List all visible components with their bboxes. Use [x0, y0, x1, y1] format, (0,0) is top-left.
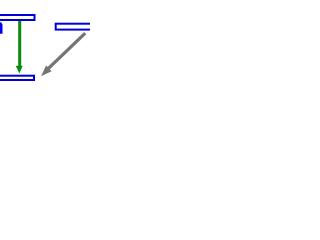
- green transition arrow (vertical, pointing down from upper-left band to lower-left band): [16, 21, 23, 74]
- blue arrow fragment at left edge (clipped shape below upper-left band): [0, 22, 3, 34]
- energy level band lower-left (blue outlined rectangle, clipped at left edge): [0, 76, 34, 80]
- background: [0, 0, 90, 90]
- energy level band upper-right (blue outlined rectangle, clipped at right edge): [56, 24, 96, 30]
- energy level band upper-left (blue outlined rectangle, clipped at left edge): [0, 15, 35, 20]
- gray annotation arrow (diagonal from under upper-right band, pointing lower-left): [41, 33, 85, 76]
